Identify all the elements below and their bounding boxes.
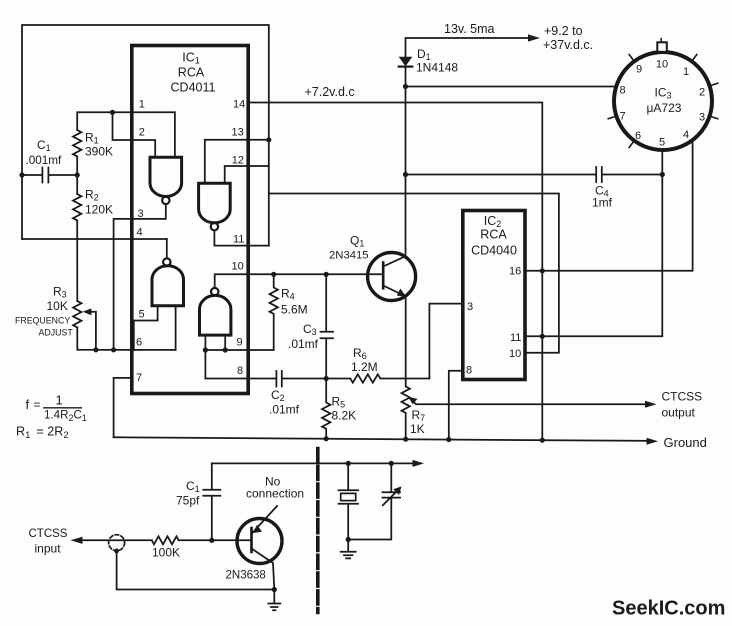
svg-text:14: 14	[233, 99, 245, 111]
node: C4 right / IC3 pin5 junction	[660, 172, 665, 177]
svg-text:C1: C1	[186, 479, 200, 494]
CTCSS input arrow and wire	[71, 537, 83, 544]
svg-text:16: 16	[509, 266, 521, 278]
svg-text:+9.2 to: +9.2 to	[544, 24, 583, 38]
svg-text:8: 8	[466, 365, 472, 377]
svg-text:f: f	[26, 397, 30, 412]
svg-text:+37v.d.c.: +37v.d.c.	[543, 38, 593, 52]
junction dots gate U1d inputs	[203, 347, 208, 352]
svg-text:3: 3	[467, 301, 473, 313]
resistor 100K	[152, 536, 212, 544]
gate U1a pin3 output wire	[114, 204, 166, 350]
gate U1c pin5 input wire	[134, 306, 158, 350]
potentiometer R7 1K	[402, 379, 410, 440]
IC3 pin 4 wire down to IC2 pin 16	[525, 140, 693, 271]
NAND gate U1b (pins 12,13 -> 11)	[199, 183, 231, 230]
svg-text:R2: R2	[85, 188, 99, 203]
svg-text:.001mf: .001mf	[26, 154, 62, 167]
svg-text:ADJUST: ADJUST	[39, 328, 74, 338]
svg-text:100K: 100K	[152, 546, 180, 560]
node: trimmer top junction	[389, 461, 394, 466]
wire D1 to IC3 pin 8	[406, 86, 616, 88]
gate U1b pin12 input wire	[225, 166, 269, 183]
ground rail arrowhead	[647, 438, 659, 445]
resistor R5 8.2K	[322, 379, 330, 438]
svg-text:2N3415: 2N3415	[329, 250, 369, 262]
wire D1 node down to C4 node and Q1 collector	[405, 87, 407, 257]
svg-text:C1: C1	[37, 138, 51, 153]
svg-text:8: 8	[619, 85, 625, 97]
svg-text:Ground: Ground	[664, 435, 707, 450]
R3 wiper arrow wire	[88, 312, 96, 350]
node: rail junction at ground line	[540, 438, 545, 443]
node: R5 bottom ground junction	[324, 436, 329, 441]
svg-text:120K: 120K	[85, 203, 113, 217]
wire R6 right to IC2 pin 3	[429, 304, 462, 379]
svg-text:CTCSS: CTCSS	[29, 528, 68, 540]
svg-text:5.6M: 5.6M	[281, 303, 308, 317]
CTCSS output wire with wiper arrow	[411, 400, 652, 405]
capacitor C1 75pf	[203, 463, 220, 540]
svg-text:1N4148: 1N4148	[416, 61, 458, 75]
node: C4 left junction	[403, 172, 408, 177]
svg-text:μA723: μA723	[647, 101, 682, 115]
NAND gate U1c (pins 5,6 -> 4)	[152, 258, 184, 305]
svg-text:1: 1	[56, 393, 63, 408]
IC2 pin number labels	[466, 266, 521, 377]
svg-text:CD4040: CD4040	[471, 244, 517, 258]
wire R1 to C1 node	[76, 156, 78, 194]
svg-text:R4: R4	[281, 287, 295, 302]
svg-text:6: 6	[136, 337, 142, 349]
svg-text:5: 5	[659, 137, 665, 149]
node: below dashed circle	[114, 549, 119, 554]
svg-text:11: 11	[510, 332, 521, 344]
svg-text:2N3638: 2N3638	[226, 570, 266, 582]
node: crystal top junction	[346, 461, 351, 466]
svg-text:input: input	[35, 542, 62, 556]
svg-text:1.2M: 1.2M	[351, 360, 378, 374]
svg-text:13v. 5ma: 13v. 5ma	[444, 22, 495, 36]
svg-text:=: =	[34, 398, 41, 412]
capacitor C3 .01mf	[321, 274, 334, 378]
svg-text:output: output	[662, 406, 696, 420]
node: C3 top junction	[324, 272, 329, 277]
node: rail junction at IC2 pin 16	[540, 268, 545, 273]
capacitor C1 .001mf	[22, 168, 77, 183]
svg-text:11: 11	[233, 234, 244, 246]
svg-text:IC3: IC3	[654, 86, 671, 101]
svg-text:CTCSS: CTCSS	[662, 390, 703, 404]
svg-text:FREQUENCY: FREQUENCY	[15, 316, 70, 326]
IC3 pin ticks	[608, 55, 717, 148]
wire C4 node down to IC2 pin 11	[525, 175, 662, 337]
svg-text:1K: 1K	[410, 422, 425, 436]
svg-text:C3: C3	[303, 322, 317, 337]
svg-text:R5: R5	[332, 395, 346, 410]
node: crystal bottom junction	[346, 537, 351, 542]
svg-text:10: 10	[509, 348, 521, 360]
ground rail wire	[114, 437, 652, 441]
IC3 pin number labels	[619, 59, 705, 149]
junction dot pin3 vertical / pin6 line	[111, 347, 116, 352]
ground symbol below Q2	[268, 590, 280, 611]
svg-text:connection: connection	[246, 487, 304, 501]
pin 13 junction dot on right vertical	[266, 137, 271, 142]
svg-text:CD4011: CD4011	[171, 81, 216, 95]
IC1 pin number labels	[136, 99, 245, 385]
potentiometer R3 10K	[73, 301, 81, 327]
NAND gate U1a (pins 1,2 -> 3)	[150, 157, 182, 204]
gate U1b pin11 output wire	[214, 230, 268, 245]
svg-text:IC1: IC1	[182, 51, 200, 66]
junction dot wiper / pin6 line	[93, 347, 98, 352]
transistor Q1 2N3415	[329, 234, 416, 301]
svg-text:C2: C2	[271, 388, 285, 403]
node: D1 cathode junction	[403, 84, 408, 89]
svg-text:SeekIC.com: SeekIC.com	[612, 598, 725, 620]
svg-text:7: 7	[136, 372, 142, 384]
gate U1a pin1 input wire	[132, 112, 175, 157]
+7.2 v.d.c rail: pin 14 wire to IC2 pin 16 and ground	[248, 103, 542, 441]
IC3 pin 5 wire down to C4 node	[661, 150, 663, 175]
resistor R2 120K	[73, 194, 81, 220]
wire from IC1 pins 13/12 net to IC2 pin 10	[269, 194, 559, 353]
capacitor C4 1mf	[406, 167, 663, 182]
Q1 emitter wire down to R6/R7 node	[405, 297, 407, 379]
node: Q2 emitter-return junction	[272, 587, 277, 592]
svg-text:1mf: 1mf	[592, 196, 613, 210]
svg-text:+7.2v.d.c: +7.2v.d.c	[305, 85, 355, 99]
svg-text:390K: 390K	[85, 145, 113, 159]
svg-text:R1 = 2R2: R1 = 2R2	[16, 425, 69, 442]
outer feedback loop wire (pin4 - left border - top border - pins 13/12/11)	[22, 25, 269, 246]
svg-text:13: 13	[232, 127, 244, 139]
svg-text:RCA: RCA	[480, 228, 507, 242]
svg-text:9: 9	[237, 337, 243, 349]
gate U1d input wires pins 9,8	[205, 335, 248, 378]
svg-text:8: 8	[237, 365, 243, 377]
node: 100K / C1 / base junction	[209, 538, 214, 543]
formula f = 1/1.4R2C1	[26, 393, 87, 423]
transistor Q2 2N3638	[226, 506, 283, 590]
resistor R6 1.2M	[326, 374, 429, 382]
svg-text:Q1: Q1	[350, 234, 364, 249]
svg-text:6: 6	[635, 130, 641, 142]
trimmer capacitor	[348, 463, 400, 539]
wire dashed circle to bottom return	[117, 551, 275, 590]
svg-text:1: 1	[683, 66, 689, 78]
diode D1 1N4148	[399, 57, 413, 66]
pin 7 wire to ground rail	[114, 378, 132, 437]
svg-text:9: 9	[636, 64, 642, 76]
svg-text:4: 4	[137, 227, 143, 239]
resistor R4 5.6M	[248, 274, 278, 350]
wire R3 bottom to pin6 line	[77, 327, 175, 350]
gate U1c pin6 input wire	[175, 306, 177, 350]
13v supply wire with arrow	[406, 38, 534, 57]
svg-text:4: 4	[683, 129, 689, 141]
svg-text:10: 10	[232, 261, 244, 273]
svg-text:1: 1	[139, 99, 145, 111]
dashed divider line	[316, 449, 320, 613]
node: rail junction at IC2 pin 11 line	[540, 334, 545, 339]
gate U1a pin2 input wire	[132, 140, 155, 157]
Q2 base wire	[212, 539, 252, 541]
NAND gate U1d (pins 8,9 -> 10)	[200, 288, 231, 335]
svg-text:2: 2	[699, 87, 705, 99]
node: R4 top junction	[271, 272, 276, 277]
svg-text:8.2K: 8.2K	[332, 409, 357, 423]
node: pins 1+2 tie wire	[77, 112, 132, 140]
capacitor C2 .01mf	[248, 371, 326, 387]
svg-text:5: 5	[139, 309, 145, 321]
gate U1c pin4 output wire	[166, 239, 168, 258]
top wire of oscillator pickup with arrow	[212, 462, 418, 464]
svg-text:7: 7	[619, 111, 625, 123]
svg-text:R1: R1	[85, 131, 99, 146]
svg-text:.01mf: .01mf	[288, 337, 319, 351]
node: R7 bottom ground junction	[403, 437, 408, 442]
svg-text:75pf: 75pf	[176, 494, 200, 508]
svg-text:2: 2	[139, 127, 145, 139]
Q1 base wire from pin 10 net	[248, 273, 383, 275]
svg-text:3: 3	[699, 112, 705, 124]
svg-text:R3: R3	[53, 285, 67, 300]
wire R2 to R3	[76, 220, 78, 301]
svg-text:10: 10	[656, 59, 668, 71]
dashed connector circle	[109, 535, 125, 551]
pin 4 wire to gate U1c output	[22, 238, 167, 240]
svg-text:R7: R7	[412, 408, 426, 423]
svg-text:10K: 10K	[47, 299, 68, 313]
svg-text:1.4R2C1: 1.4R2C1	[44, 409, 87, 423]
svg-text:R6: R6	[353, 346, 367, 361]
gate U1b pin13 input wire	[205, 140, 269, 184]
svg-text:12: 12	[232, 155, 244, 167]
resistor R1 390K	[73, 130, 81, 156]
IC2 CD4040 package outline	[463, 211, 525, 380]
IC3 uA723 round package	[614, 39, 712, 151]
IC1 CD4011 package outline	[132, 46, 248, 394]
crystal Y1	[339, 463, 359, 539]
node: IC2 pin8 ground junction	[446, 437, 451, 442]
ground symbol below crystal	[341, 540, 356, 559]
svg-text:RCA: RCA	[178, 66, 205, 80]
gate U1d pin10 output wire	[215, 274, 249, 288]
node: C2/R5/R6/C3 junction	[324, 376, 329, 381]
svg-text:.01mf: .01mf	[269, 403, 300, 417]
IC2 pin 8 wire to ground rail	[449, 371, 463, 440]
